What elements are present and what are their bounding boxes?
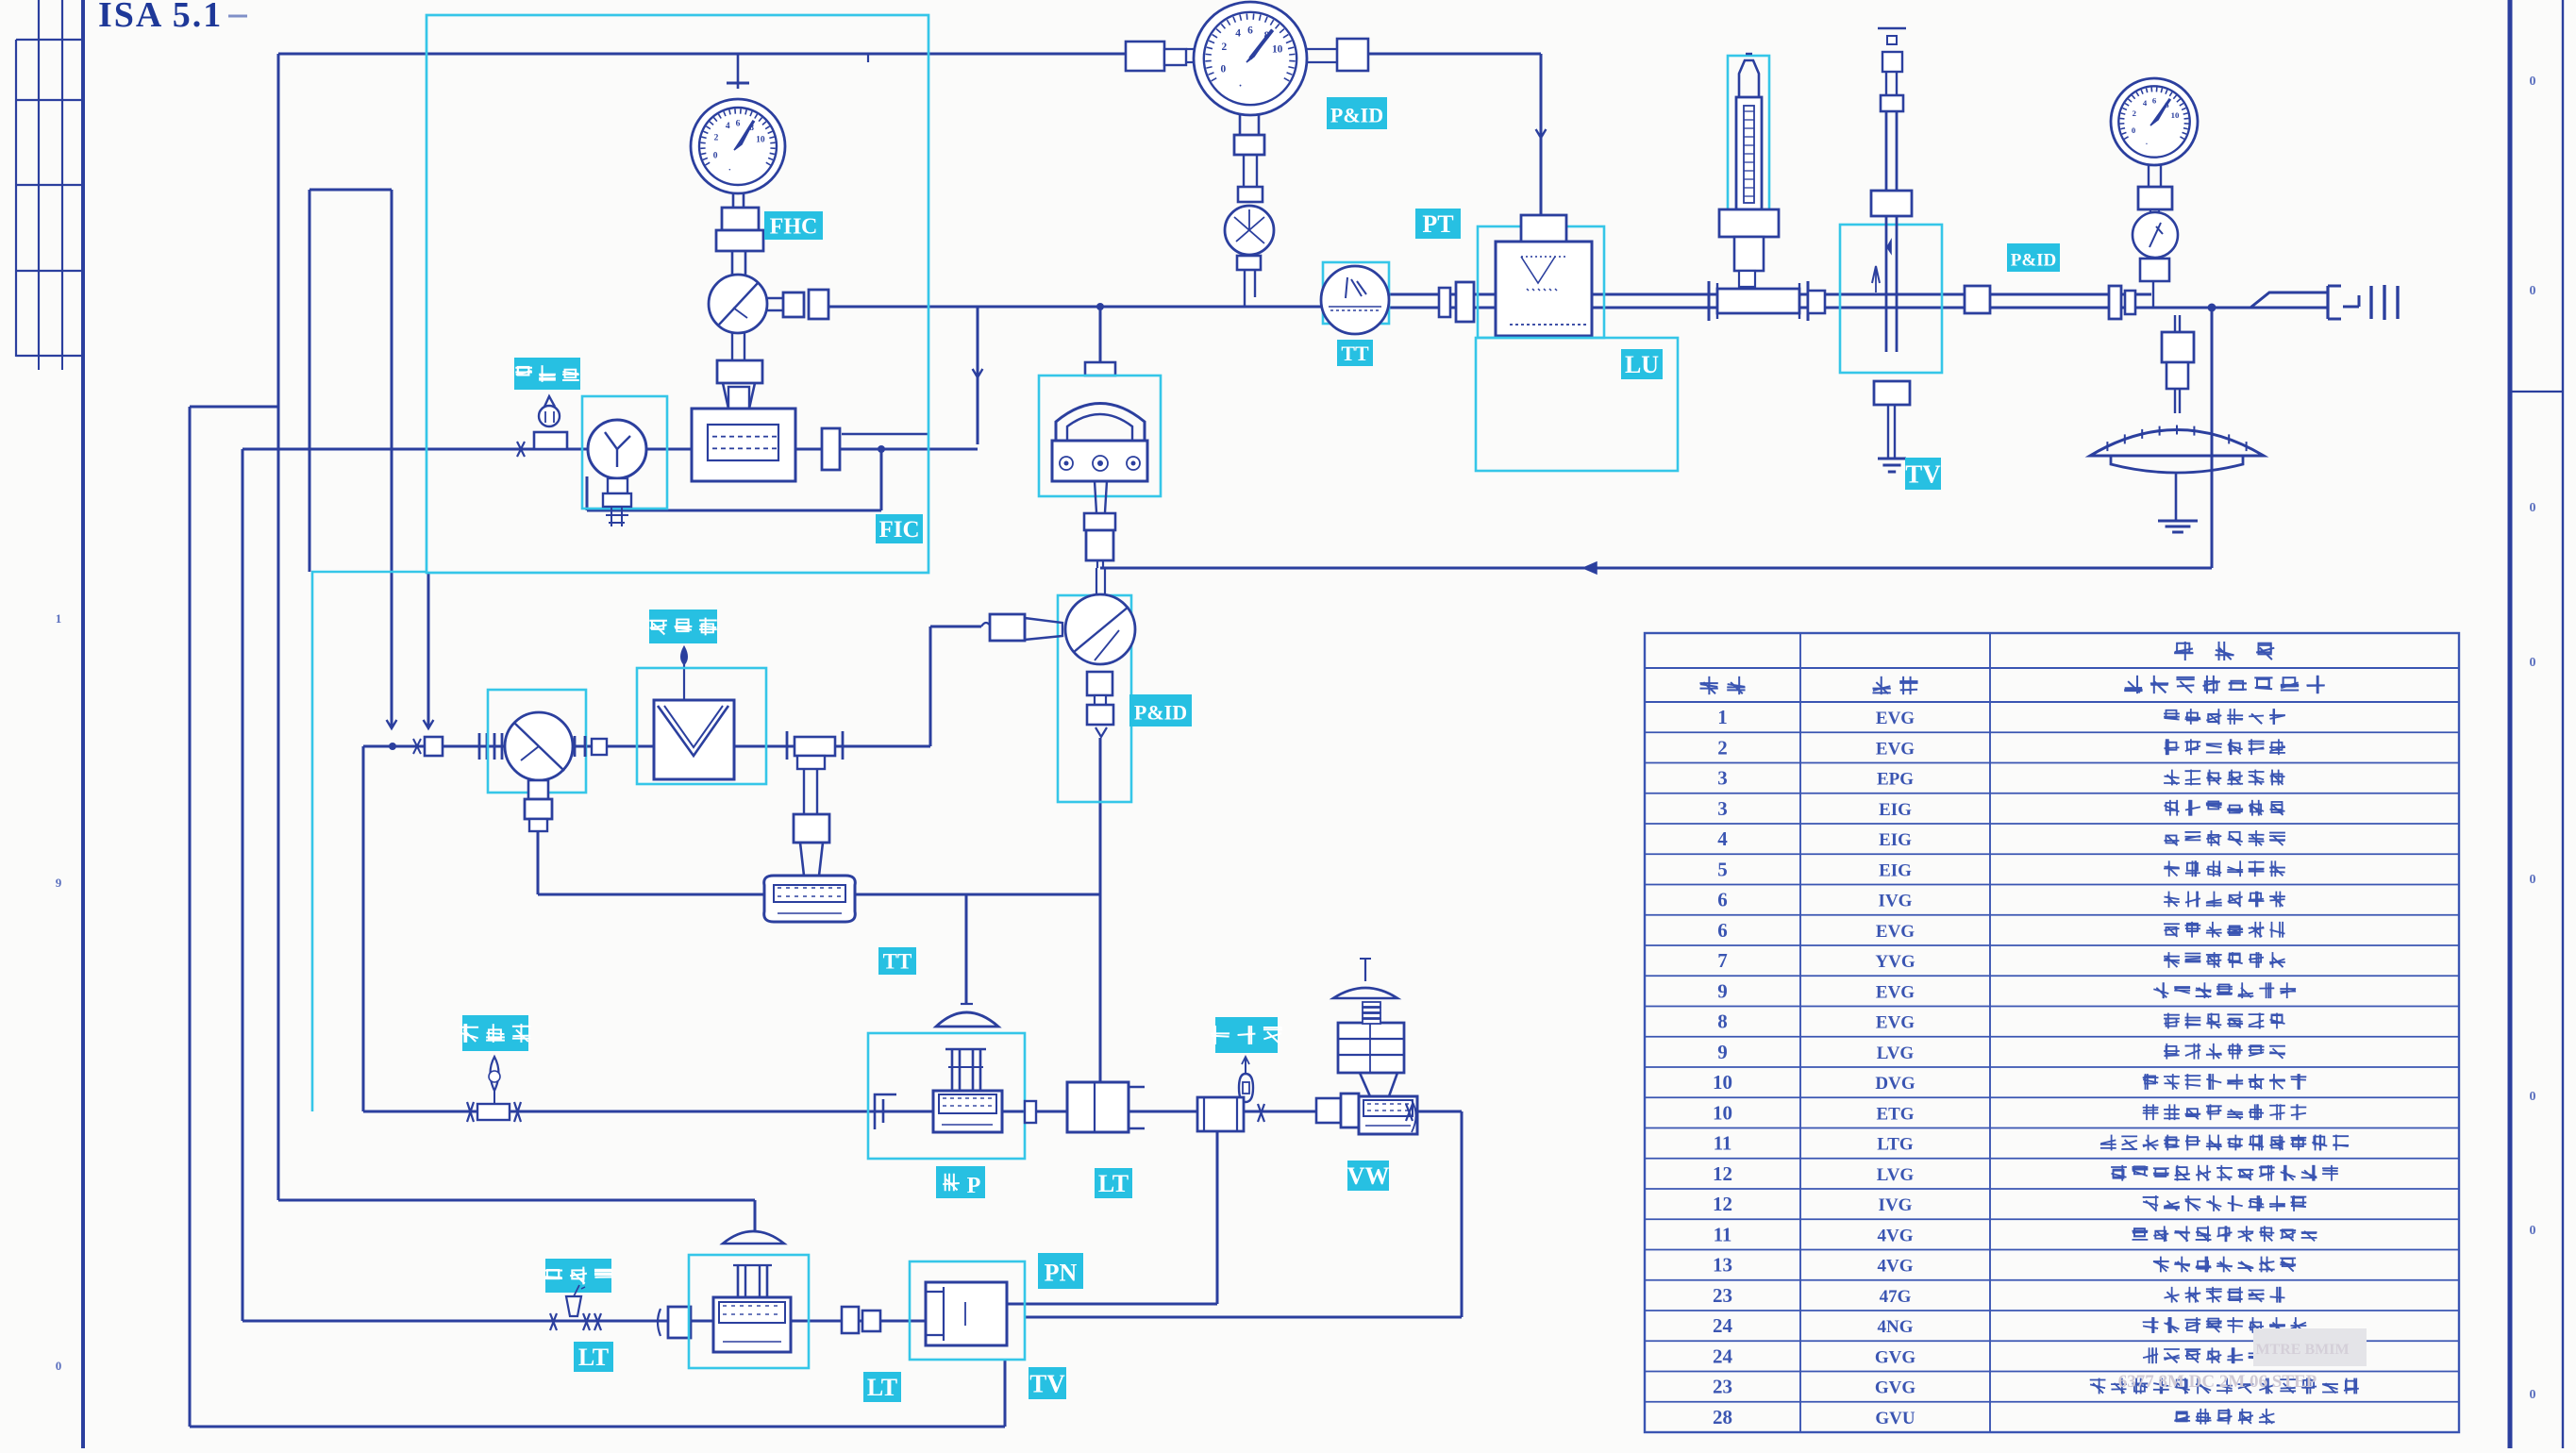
label VW — [1347, 1161, 1390, 1191]
flowmeter FE1 hatch — [708, 425, 778, 460]
wire drop to valve dome x=800 — [754, 1200, 757, 1231]
svg-text:4: 4 — [726, 122, 730, 131]
svg-text:P&ID: P&ID — [1330, 104, 1383, 127]
bottom valve dome — [723, 1231, 784, 1244]
control valve cyan box — [868, 1033, 1025, 1159]
diaphragm blocks — [2162, 332, 2194, 389]
table header 功能字母代码含义 — [2124, 676, 2325, 693]
svg-text:0: 0 — [2530, 873, 2536, 887]
pressure gauge PG2 — [1194, 2, 1307, 115]
table column lines — [1800, 633, 1990, 1432]
svg-text:12: 12 — [1713, 1193, 1732, 1215]
svg-text:4: 4 — [1717, 827, 1728, 850]
thermometer cyan box — [1728, 56, 1769, 211]
bottom valve cyan box — [689, 1255, 809, 1368]
regulator outlet block A — [783, 292, 804, 317]
svg-text:23: 23 — [1713, 1376, 1732, 1398]
svg-text:10: 10 — [756, 135, 765, 144]
svg-text:P: P — [967, 1174, 981, 1198]
svg-text:0: 0 — [2530, 1388, 2536, 1402]
controller flange to pipe — [1085, 362, 1115, 376]
arrow on signal run — [1583, 562, 1597, 574]
coupler after tee1 — [1808, 291, 1825, 313]
svg-text:TT: TT — [883, 950, 912, 974]
temperature indicator TT circle — [1321, 266, 1389, 334]
svg-text:0: 0 — [2530, 1090, 2536, 1104]
svg-text:2: 2 — [2133, 109, 2136, 118]
svg-text:10: 10 — [2171, 110, 2180, 120]
svg-text:0: 0 — [2530, 501, 2536, 515]
svg-text:YVG: YVG — [1875, 952, 1915, 972]
label LU — [1621, 349, 1663, 379]
LT transmitter box — [1067, 1082, 1145, 1132]
TV column bottom flange — [1874, 381, 1910, 405]
label LT bottom-mid — [863, 1372, 901, 1402]
junction dot controller tap — [1096, 303, 1104, 310]
svg-text:2: 2 — [1222, 42, 1228, 53]
svg-text:LT: LT — [1098, 1170, 1129, 1197]
flowmeter outlet coupler — [822, 428, 840, 470]
controller cyan box — [1039, 376, 1161, 496]
squiggle connector to bubble — [981, 623, 1000, 630]
PG2 lower stem — [1240, 115, 1259, 135]
wire fic under-box — [587, 449, 881, 510]
cyan box FIC group — [427, 15, 928, 573]
svg-text:11: 11 — [1714, 1132, 1732, 1155]
svg-text:EVG: EVG — [1876, 1013, 1915, 1033]
flowmeter top neck — [723, 383, 755, 409]
wire mid pipe y=1178 — [363, 1111, 1462, 1113]
wire thermometer branch x=1851 — [1746, 271, 1748, 289]
TV vessel cyan box — [910, 1261, 1025, 1360]
wire bottom pipe y=1400 — [243, 1320, 926, 1323]
tee2 branch flange — [794, 814, 829, 843]
label TT bottom — [878, 947, 916, 975]
sensor glyph bottom — [566, 1285, 585, 1316]
VW valve body — [1359, 1096, 1417, 1134]
main process pipe left section y=325 — [828, 306, 1321, 309]
teardrop sensor 2 — [489, 1057, 500, 1104]
wire outer loop vertical x=201 — [189, 407, 192, 1427]
table row lines — [1645, 668, 2459, 1402]
FI1 cyan box — [582, 396, 667, 509]
svg-text:24: 24 — [1713, 1344, 1733, 1367]
svg-text:FHC: FHC — [770, 214, 818, 239]
junction dot main pipe right — [2208, 304, 2216, 312]
table header 位号 col2 — [1872, 676, 1917, 694]
pipe bowtie left — [550, 1313, 557, 1330]
svg-text:0: 0 — [1220, 63, 1226, 75]
main process pipe right section — [2151, 307, 2328, 309]
wire vessel outlet upper y=1382 — [1006, 1303, 1217, 1306]
VW coil stack — [1363, 1002, 1380, 1024]
pipe end dash — [2343, 295, 2359, 307]
regulator outlet stub — [767, 298, 783, 310]
left margin grid (title strip) — [16, 0, 83, 370]
right frame divider — [2510, 391, 2563, 392]
PG2 lower flange — [1237, 256, 1261, 270]
svg-text:1: 1 — [1717, 706, 1728, 728]
svg-text:47G: 47G — [1880, 1287, 1912, 1307]
svg-text:PN: PN — [1045, 1260, 1078, 1287]
diaphragm stem — [2175, 389, 2180, 413]
table header 位号 col1 — [1699, 676, 1745, 694]
pipe tick before valve — [517, 442, 525, 457]
wire riser x=1290 — [1216, 1131, 1219, 1304]
flange pair right — [2109, 286, 2135, 319]
svg-text:LT: LT — [578, 1344, 609, 1371]
label PN — [1038, 1253, 1083, 1289]
svg-text:5: 5 — [1717, 858, 1728, 880]
PG2 needle valve circle — [1225, 206, 1274, 255]
thermometer cap — [1739, 54, 1759, 97]
table header 符号明 — [2174, 642, 2274, 660]
wire connector y=431 — [190, 406, 278, 409]
thermometer neck — [1739, 271, 1755, 287]
TV column bottom stem — [1888, 405, 1895, 458]
TV column arrow — [1872, 266, 1880, 292]
svg-text:EVG: EVG — [1876, 922, 1915, 942]
PI2 right flange — [575, 736, 607, 757]
wire loop vertical x=385 — [362, 746, 365, 1111]
TV column body — [1886, 111, 1897, 191]
label 流量计 (flow meter) — [514, 358, 580, 390]
PG1 valve block — [716, 208, 763, 251]
controller stem — [1097, 560, 1103, 568]
svg-text:4NG: 4NG — [1878, 1317, 1914, 1337]
pipe flanges left — [479, 733, 502, 760]
svg-text:LTG: LTG — [1877, 1135, 1914, 1155]
label LT mid — [1095, 1168, 1132, 1198]
svg-text:6: 6 — [1717, 889, 1728, 911]
tee2 branch block — [797, 756, 825, 769]
svg-text:TV: TV — [1905, 460, 1941, 489]
control valve body — [933, 1091, 1002, 1132]
inline meter — [467, 1102, 521, 1122]
label P&ID right — [2007, 243, 2060, 272]
label TV bottom — [1029, 1367, 1066, 1399]
label valve bottom (hanzi+P) — [936, 1166, 985, 1198]
bubble arrow tick — [1096, 727, 1107, 737]
table cell texts — [1713, 706, 2359, 1428]
svg-text:ETG: ETG — [1876, 1104, 1914, 1124]
thermometer flange — [1719, 209, 1779, 271]
relief valve small — [534, 396, 567, 449]
TV column upper stem — [1886, 72, 1897, 95]
FI1 bottom stem — [603, 478, 631, 526]
svg-text:·: · — [1239, 81, 1243, 92]
bubble left coupler — [990, 614, 1062, 641]
TT cyan box — [1323, 262, 1389, 324]
control valve inlet brackets — [875, 1094, 896, 1129]
diaphragm bottom dish — [2111, 456, 2243, 473]
tee2 branch stem — [804, 769, 817, 814]
svg-text:EIG: EIG — [1879, 800, 1912, 820]
inline cylinder — [1197, 1097, 1244, 1131]
bottom flowmeter body — [713, 1297, 791, 1352]
label 调度计 bottom — [544, 1259, 611, 1293]
svg-text:24: 24 — [1713, 1314, 1733, 1337]
svg-text:DVG: DVG — [1875, 1074, 1915, 1094]
flowmeter FE1 body — [692, 409, 795, 481]
pressure gauge PG3 — [2111, 78, 2198, 165]
svg-text:GVU: GVU — [1875, 1409, 1915, 1428]
svg-text:GVG: GVG — [1875, 1378, 1916, 1398]
PG2 left coupler — [1126, 42, 1195, 71]
label 温度计 upper (densimeter) — [649, 610, 717, 643]
main process pipe double lower y=326 — [1389, 307, 2156, 309]
PG2 small flange — [1238, 187, 1263, 202]
svg-text:VW: VW — [1347, 1162, 1390, 1190]
V-cone vessel — [654, 700, 734, 779]
TV separator vessel — [926, 1282, 1007, 1345]
teardrop pointer — [681, 647, 687, 700]
svg-text:13: 13 — [1713, 1254, 1732, 1277]
label LT bottom-left — [574, 1342, 613, 1372]
svg-text:2: 2 — [714, 133, 719, 142]
wire fic link x=1036 — [977, 307, 979, 444]
label P&ID mid — [1129, 694, 1192, 726]
svg-text:6: 6 — [1717, 919, 1728, 942]
wire bottom signal y=1272 — [278, 1199, 755, 1202]
svg-text:12: 12 — [1713, 1162, 1732, 1185]
controller neck — [1095, 481, 1107, 512]
label FHC — [764, 211, 823, 240]
thermometer TE glass — [1736, 97, 1762, 209]
PG1 lower stem — [733, 193, 744, 208]
PG3 stem2 — [2150, 209, 2159, 217]
VW outlet tick — [1406, 1104, 1413, 1121]
controller knobs — [1060, 456, 1140, 471]
svg-text:10: 10 — [1713, 1101, 1732, 1124]
svg-text:IVG: IVG — [1879, 892, 1913, 911]
TV column top mark — [1878, 28, 1906, 72]
coupler after TV box — [1965, 286, 1990, 313]
svg-text:EIG: EIG — [1879, 830, 1912, 850]
svg-text:9: 9 — [1717, 1041, 1728, 1063]
label FIC — [876, 514, 923, 543]
pipe tee fitting 1 — [1709, 281, 1808, 321]
pressure gauge PG1 top tick — [727, 54, 749, 89]
bottom valve bonnet — [733, 1265, 772, 1297]
sensor oval — [1239, 1057, 1253, 1102]
PG3 small circle — [2133, 212, 2178, 258]
wire flowmeter line y=476 — [243, 434, 978, 449]
pipe end bars — [2371, 285, 2398, 320]
coupler before vessel — [1439, 282, 1474, 322]
PG2 stem2 — [1244, 155, 1257, 187]
table outer border — [1645, 633, 2459, 1432]
right inner frame line — [2508, 0, 2513, 1448]
pressure regulator circle — [709, 275, 767, 333]
LU vessel top neck — [1521, 215, 1566, 242]
label TT top — [1337, 340, 1373, 366]
arrow fic link — [973, 369, 983, 377]
svg-text:6: 6 — [1247, 25, 1253, 36]
wire V-cone pipe y=791 — [363, 745, 930, 748]
separator vessel LU — [1496, 242, 1592, 336]
svg-text:LVG: LVG — [1877, 1044, 1915, 1063]
arrow on vessel drop — [1536, 129, 1547, 138]
table ghost watermark — [2118, 1328, 2367, 1392]
wire gauge2-to-vessel y=57 + drop — [1368, 54, 1541, 215]
flowmeter top flange — [717, 360, 762, 383]
svg-text:0: 0 — [2530, 75, 2536, 89]
diaphragm ground — [2158, 521, 2198, 532]
instrument circle PI2 — [505, 712, 573, 780]
right outer frame line — [2562, 0, 2564, 1448]
right strip tiny marks — [2530, 75, 2536, 1402]
wire vessel outlet lower y=1396 — [1024, 1316, 1462, 1319]
svg-text:6377 8M DC 2M 06 STEP: 6377 8M DC 2M 06 STEP — [2118, 1372, 2317, 1392]
svg-text:IVG: IVG — [1879, 1195, 1913, 1215]
PI2 cyan box — [488, 690, 586, 793]
VW actuator cone — [1360, 1073, 1397, 1096]
svg-text:GVG: GVG — [1875, 1347, 1916, 1367]
svg-text:EPG: EPG — [1877, 770, 1914, 790]
svg-text:10: 10 — [1272, 44, 1283, 56]
svg-text:9: 9 — [1717, 979, 1728, 1002]
PG2 right coupler — [1307, 39, 1368, 71]
wire tower rectangle — [309, 190, 392, 726]
bubble cyan box — [1058, 595, 1131, 802]
TV column mid flange — [1871, 191, 1912, 216]
wire TT measurement line y=948 — [538, 894, 1100, 896]
junction dot pipe start — [389, 743, 396, 750]
PG1 stem 2 — [732, 251, 745, 275]
svg-text:2: 2 — [1717, 736, 1728, 759]
svg-text:·: · — [728, 166, 731, 175]
main process pipe double upper y=312 — [1389, 293, 2151, 296]
svg-text:0: 0 — [2132, 125, 2136, 135]
wire top signal line y=57 — [278, 54, 1126, 62]
svg-text:8: 8 — [1717, 1010, 1728, 1033]
TV column lower body — [1886, 216, 1897, 352]
svg-text:6: 6 — [2152, 96, 2157, 106]
TV column upper flange — [1881, 95, 1903, 111]
cyan line FIC box bottom-left extension — [311, 572, 427, 1111]
regulator outlet block B — [809, 290, 828, 319]
svg-text:28: 28 — [1713, 1406, 1732, 1428]
temperature valve TT body — [764, 876, 856, 922]
svg-text:LU: LU — [1625, 351, 1659, 378]
svg-text:0: 0 — [2530, 1224, 2536, 1238]
wire bubble feed riser x=986 — [930, 626, 981, 746]
recorder controller body — [1052, 441, 1147, 481]
left strip tiny marks — [56, 611, 62, 1373]
svg-text:0: 0 — [56, 1359, 62, 1373]
svg-text:0: 0 — [2530, 284, 2536, 298]
instrument circle FI1 — [588, 420, 646, 478]
svg-text:10: 10 — [1713, 1071, 1732, 1094]
bubble bottom blocks — [1087, 672, 1113, 725]
label TV right — [1905, 458, 1941, 490]
svg-text:4VG: 4VG — [1878, 1257, 1914, 1277]
svg-text:4: 4 — [2143, 98, 2148, 108]
title text ISA 5.1 — [98, 0, 247, 35]
bottom coupler 1 — [658, 1307, 691, 1338]
left page frame line — [81, 0, 85, 1448]
V-cone vessel cyan box — [637, 668, 766, 784]
cyan box around LU vessel — [1478, 226, 1604, 338]
recorder controller dome — [1056, 404, 1145, 442]
wire outer loop rise x=1065 — [1004, 1359, 1007, 1427]
diaphragm lower stem — [2175, 474, 2178, 521]
PG3 stem to pipe — [2152, 281, 2154, 307]
svg-text:FIC: FIC — [878, 517, 919, 543]
wire bubble drop to LT box x=1166 — [1099, 738, 1102, 1082]
svg-text:7: 7 — [1717, 949, 1728, 972]
wire controller tap x=1166 — [1099, 307, 1102, 362]
controller-to-bubble neck — [1096, 568, 1105, 595]
VW inlet coupler — [1316, 1094, 1359, 1127]
cyan box LU label zone — [1476, 338, 1678, 471]
regulator bottom stem — [732, 333, 744, 360]
wire loop vertical x=257 — [242, 449, 244, 1321]
PG3 stem — [2149, 165, 2161, 187]
main pipe jog — [2250, 292, 2328, 308]
arrow tower line x=415 — [387, 720, 397, 728]
pressure gauge PG1 — [691, 99, 785, 193]
svg-text:EVG: EVG — [1876, 739, 1915, 759]
bottom coupler 2 — [842, 1307, 880, 1333]
svg-text:EIG: EIG — [1879, 860, 1912, 880]
control valve actuator dome — [936, 1004, 998, 1027]
TV ground symbol — [1878, 459, 1906, 472]
wire drop x=454 — [427, 573, 430, 726]
wire circle drop x=570 — [537, 831, 540, 894]
label 温度计 lower — [460, 1015, 530, 1051]
label P&ID top — [1327, 97, 1387, 129]
pipe stub couplers — [413, 737, 443, 756]
wire valve stem x=1024 — [965, 894, 968, 1004]
TT valve bonnet — [795, 843, 828, 876]
PG3 flange — [2138, 187, 2172, 209]
TV cyan box — [1840, 225, 1942, 373]
PG3 lower flange — [2140, 259, 2169, 281]
pipe tick after cylinder — [1258, 1104, 1264, 1122]
label PT — [1415, 209, 1461, 239]
svg-text:0: 0 — [713, 152, 718, 161]
svg-text:LVG: LVG — [1877, 1165, 1915, 1185]
wire pipe-to-signal drop x=2344 — [2211, 308, 2214, 568]
LU vessel dotted hopper — [1510, 257, 1586, 325]
svg-text:LT: LT — [867, 1374, 897, 1401]
svg-text:TT: TT — [1341, 342, 1369, 365]
controller coupler — [1084, 513, 1115, 560]
arrow drop x=454 — [424, 720, 434, 728]
svg-text:EVG: EVG — [1876, 982, 1915, 1002]
svg-text:3: 3 — [1717, 767, 1728, 790]
svg-text:9: 9 — [56, 876, 62, 890]
svg-text:P&ID: P&ID — [1134, 701, 1187, 725]
pipe end bracket — [2328, 286, 2341, 319]
svg-text:MTRE BMIM: MTRE BMIM — [2255, 1342, 2349, 1358]
svg-text:6: 6 — [736, 120, 741, 129]
svg-text:P&ID: P&ID — [2011, 250, 2057, 270]
PG2 stem to pipe — [1245, 270, 1255, 307]
svg-text:·: · — [2146, 139, 2149, 148]
VW spring box — [1338, 1023, 1404, 1073]
control valve bonnet — [945, 1049, 986, 1091]
pipe tee fitting 2 — [787, 731, 843, 760]
PG2 block — [1234, 135, 1264, 155]
wire signal run y=602 — [1100, 567, 2212, 570]
svg-text:EVG: EVG — [1876, 709, 1915, 728]
VW top dish — [1333, 959, 1397, 998]
label 调节计 — [1211, 1017, 1281, 1053]
instrument bubble circle — [1065, 594, 1135, 664]
